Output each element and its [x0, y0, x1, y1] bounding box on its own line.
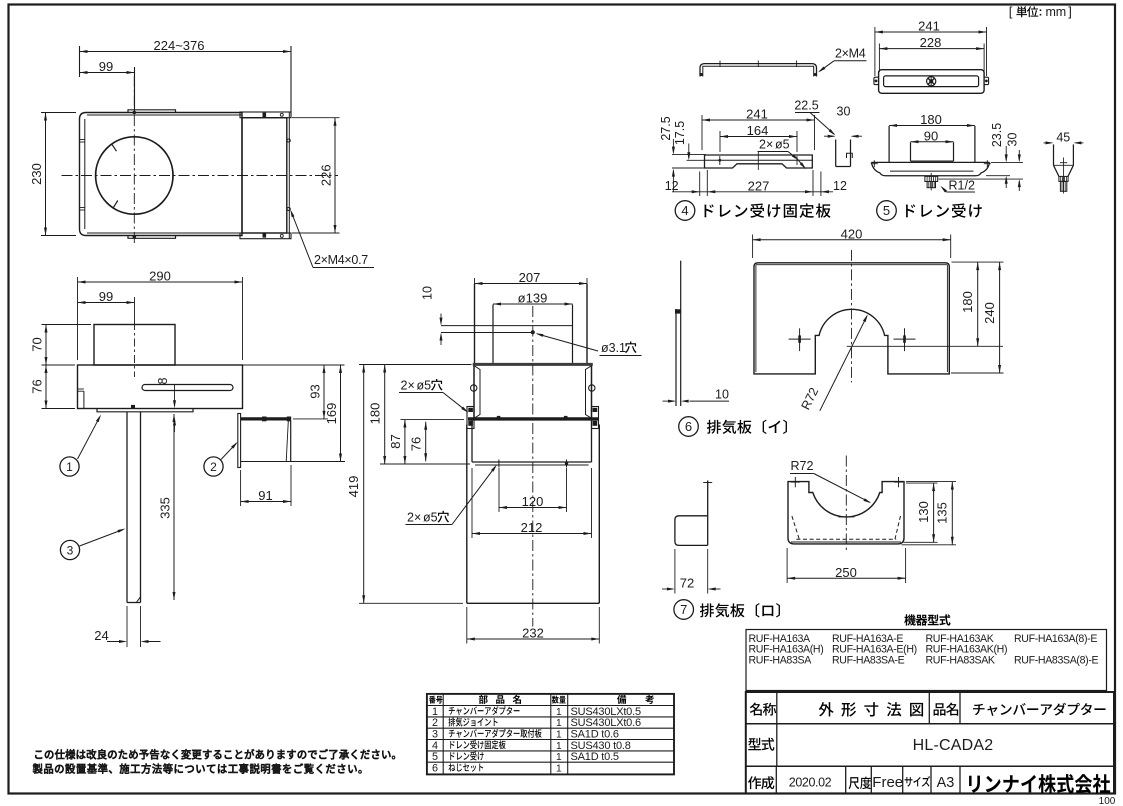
svg-text:RUF-HA83SA: RUF-HA83SA	[749, 654, 813, 666]
svg-text:30: 30	[837, 105, 851, 119]
svg-text:7: 7	[680, 602, 687, 617]
svg-text:RUF-HA83SA(8)-E: RUF-HA83SA(8)-E	[1014, 654, 1099, 666]
svg-text:1: 1	[66, 460, 73, 474]
svg-text:[: [	[1009, 4, 1013, 19]
svg-text:72: 72	[680, 576, 694, 591]
svg-text:180: 180	[920, 112, 942, 127]
svg-text:6: 6	[685, 419, 692, 434]
svg-text:12: 12	[833, 179, 847, 193]
svg-text:180: 180	[960, 291, 975, 313]
svg-text:212: 212	[521, 520, 543, 535]
svg-text:10: 10	[715, 388, 729, 402]
svg-text:30: 30	[1006, 133, 1020, 147]
svg-text:93: 93	[308, 384, 323, 398]
svg-text:228: 228	[920, 35, 942, 50]
svg-text:3: 3	[432, 729, 438, 741]
svg-text:1: 1	[556, 730, 562, 741]
svg-text:R72: R72	[791, 459, 814, 473]
svg-text:ø5: ø5	[423, 511, 438, 525]
svg-text:70: 70	[30, 337, 45, 351]
svg-text:17.5: 17.5	[673, 121, 687, 145]
svg-text:335: 335	[158, 497, 173, 519]
svg-text:135: 135	[935, 502, 950, 524]
svg-text:230: 230	[29, 163, 44, 185]
svg-text:RUF-HA163A(8)-E: RUF-HA163A(8)-E	[1014, 633, 1097, 645]
svg-text::: :	[1039, 5, 1043, 19]
svg-text:1: 1	[556, 764, 562, 775]
svg-text:3: 3	[67, 544, 74, 558]
svg-text:SA1D t0.6: SA1D t0.6	[571, 729, 619, 741]
svg-text:ø5: ø5	[417, 379, 432, 393]
svg-text:A3: A3	[937, 775, 955, 791]
svg-text:SUS430LXt0.6: SUS430LXt0.6	[571, 717, 641, 729]
svg-text:164: 164	[747, 123, 769, 138]
svg-text:4: 4	[432, 740, 438, 752]
svg-text:2×: 2×	[401, 379, 415, 393]
svg-text:207: 207	[519, 270, 541, 285]
svg-text:24: 24	[94, 628, 108, 643]
svg-text:ø5: ø5	[775, 138, 790, 152]
svg-text:99: 99	[99, 59, 113, 74]
svg-text:1: 1	[432, 706, 438, 718]
svg-text:1: 1	[556, 741, 562, 752]
svg-text:2: 2	[210, 460, 217, 474]
svg-text:1: 1	[556, 707, 562, 718]
svg-text:120: 120	[522, 494, 544, 509]
svg-text:290: 290	[149, 269, 171, 284]
svg-text:90: 90	[924, 128, 938, 143]
svg-text:419: 419	[346, 476, 361, 498]
svg-text:1: 1	[556, 752, 562, 763]
svg-text:99: 99	[99, 289, 113, 304]
svg-text:5: 5	[432, 751, 438, 763]
svg-text:91: 91	[258, 488, 272, 503]
svg-text:ø3.1: ø3.1	[601, 341, 626, 355]
svg-text:76: 76	[30, 379, 45, 393]
svg-text:10: 10	[421, 286, 435, 300]
svg-text:m: m	[1056, 5, 1066, 19]
svg-text:76: 76	[409, 437, 424, 451]
svg-text:420: 420	[841, 226, 863, 241]
svg-text:224~376: 224~376	[154, 38, 205, 53]
svg-text:2×: 2×	[759, 138, 773, 152]
svg-text:HL-CADA2: HL-CADA2	[913, 737, 994, 754]
svg-text:12: 12	[665, 179, 679, 193]
svg-text:227: 227	[748, 178, 770, 193]
svg-text:45: 45	[1056, 131, 1070, 145]
svg-text:240: 240	[982, 302, 997, 324]
svg-text:2020.02: 2020.02	[789, 776, 832, 790]
svg-text:226: 226	[319, 164, 334, 186]
svg-text:2: 2	[432, 717, 438, 729]
svg-text:8: 8	[156, 377, 170, 384]
svg-text:2×M4: 2×M4	[835, 47, 866, 61]
svg-text:SUS430LXt0.5: SUS430LXt0.5	[571, 706, 641, 718]
svg-text:m: m	[1046, 5, 1056, 19]
svg-text:180: 180	[368, 403, 383, 425]
svg-text:4: 4	[681, 203, 688, 218]
svg-text:RUF-HA83SA-E: RUF-HA83SA-E	[832, 654, 905, 666]
svg-text:2×: 2×	[407, 511, 421, 525]
svg-text:23.5: 23.5	[990, 123, 1004, 147]
svg-text:Free: Free	[872, 774, 903, 791]
svg-text:100: 100	[1099, 796, 1116, 806]
svg-text:SUS430 t0.8: SUS430 t0.8	[571, 740, 631, 752]
svg-text:22.5: 22.5	[794, 99, 818, 113]
svg-text:241: 241	[918, 19, 940, 34]
svg-text:ø139: ø139	[518, 291, 548, 306]
svg-text:]: ]	[1068, 4, 1072, 19]
svg-text:27.5: 27.5	[659, 116, 673, 140]
svg-text:2×M4×0.7: 2×M4×0.7	[314, 253, 368, 267]
svg-text:RUF-HA83SAK: RUF-HA83SAK	[926, 654, 995, 666]
svg-text:250: 250	[835, 565, 857, 580]
svg-text:169: 169	[324, 403, 339, 425]
svg-text:6: 6	[432, 763, 438, 775]
svg-text:5: 5	[883, 203, 890, 218]
svg-text:232: 232	[522, 626, 544, 641]
svg-text:241: 241	[746, 107, 768, 122]
svg-text:R1/2: R1/2	[949, 179, 975, 193]
svg-text:SA1D t0.5: SA1D t0.5	[571, 751, 619, 763]
svg-text:87: 87	[388, 434, 403, 448]
svg-text:130: 130	[916, 501, 931, 523]
svg-text:1: 1	[556, 718, 562, 729]
